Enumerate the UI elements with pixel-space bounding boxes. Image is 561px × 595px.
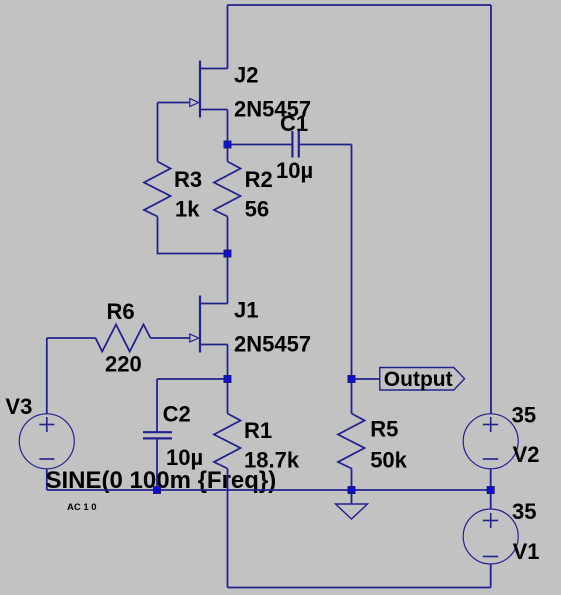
wire junction node A (J2 source / R2 / C1) — [224, 141, 231, 148]
wire J1 gate — [151, 337, 190, 339]
wire J1 source down — [227, 345, 229, 380]
capacitor C2 — [143, 379, 172, 490]
svg-text:J2: J2 — [234, 62, 258, 87]
resistor R6 — [47, 325, 151, 352]
wire junction C2 bottom — [154, 487, 161, 494]
transistor J2 — [190, 61, 228, 118]
resistor R3 — [144, 103, 228, 254]
svg-text:10µ: 10µ — [276, 158, 313, 183]
svg-text:220: 220 — [105, 351, 142, 376]
wire bottom rail — [47, 489, 491, 491]
wire junction V2-V1 node — [487, 487, 494, 494]
svg-text:J1: J1 — [234, 297, 258, 322]
wire junction ground node — [348, 487, 355, 494]
wire node C to C2 — [157, 378, 228, 380]
wire junction node B (R2 / R3 / J1 drain) — [224, 250, 231, 257]
svg-text:10µ: 10µ — [166, 445, 203, 470]
resistor R5 — [338, 379, 365, 490]
svg-text:18.7k: 18.7k — [244, 447, 300, 472]
svg-text:1k: 1k — [175, 197, 200, 222]
svg-text:2N5457: 2N5457 — [234, 332, 311, 357]
svg-text:50k: 50k — [370, 447, 407, 472]
resistor R1 — [214, 379, 241, 588]
resistor R2 — [214, 145, 241, 254]
wire J2 source down — [227, 110, 229, 145]
svg-text:R1: R1 — [244, 418, 272, 443]
svg-text:R5: R5 — [370, 417, 398, 442]
wire junction node C (J1 source / C2 / R1) — [224, 376, 231, 383]
svg-text:R2: R2 — [245, 167, 273, 192]
voltage source V2 — [463, 414, 518, 490]
svg-text:56: 56 — [245, 197, 269, 222]
svg-text:C1: C1 — [280, 111, 308, 136]
voltage source V1 — [463, 490, 518, 588]
capacitor C1 — [228, 131, 352, 158]
wire bottom loop — [228, 587, 491, 589]
wire J2 drain up — [227, 5, 229, 69]
wire output node to flag — [352, 378, 380, 380]
wire junction output node — [348, 376, 355, 383]
svg-text:AC 1 0: AC 1 0 — [67, 502, 97, 513]
transistor J1 — [190, 296, 228, 353]
svg-text:V1: V1 — [513, 539, 540, 564]
svg-text:R6: R6 — [107, 299, 135, 324]
wire top rail — [228, 4, 492, 6]
wire right rail to V2 top — [490, 5, 492, 414]
svg-text:V2: V2 — [513, 442, 540, 467]
wire J2 gate — [158, 102, 190, 104]
svg-text:C2: C2 — [163, 402, 191, 427]
svg-text:35: 35 — [512, 403, 536, 428]
svg-text:Output: Output — [384, 368, 453, 391]
voltage source V3 — [19, 338, 74, 490]
svg-text:35: 35 — [512, 499, 536, 524]
wire J1 drain from node B — [227, 254, 229, 304]
svg-text:V3: V3 — [5, 394, 32, 419]
svg-text:R3: R3 — [174, 167, 202, 192]
wire C1 to output node — [351, 145, 353, 380]
ground — [336, 490, 368, 519]
node Output flag — [380, 368, 465, 392]
